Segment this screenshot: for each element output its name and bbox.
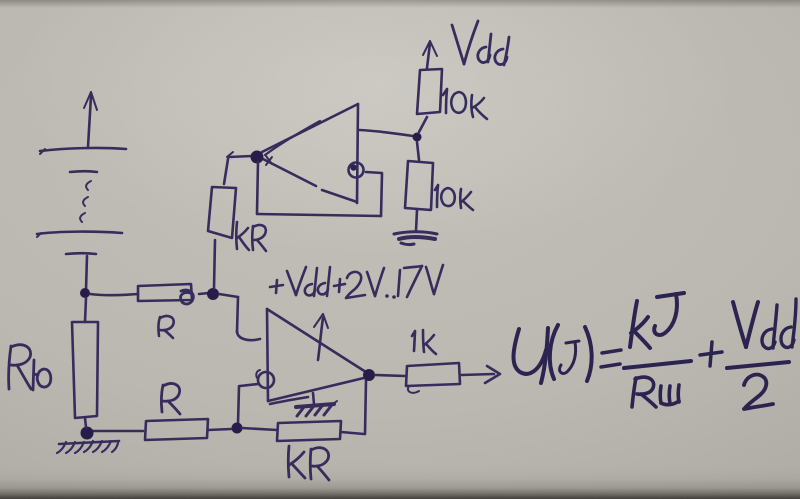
- formula equals sign: [601, 350, 621, 367]
- resistor kR1: [208, 187, 236, 238]
- label R3 value 10k: [435, 185, 473, 210]
- wire U1 to node E: [359, 130, 413, 136]
- wire sensor to node A: [86, 256, 87, 290]
- wire U1 feedback loop: [257, 162, 382, 216]
- wire node C to resistor R4: [208, 429, 231, 430]
- wire node E to resistor R3: [417, 142, 419, 160]
- resistor R3 10k: [405, 161, 433, 210]
- sensor capacitor stack arrow: [84, 92, 97, 147]
- wire resistor R2 to node E: [419, 117, 427, 132]
- sensor plate 1: [40, 148, 126, 154]
- formula plus sign: [700, 342, 722, 366]
- wire resistor R1 to node A2: [199, 293, 209, 294]
- formula numerator Vdd: [733, 299, 796, 349]
- op-amp U2: [267, 309, 369, 401]
- resistor R5 Ryu vertical: [72, 322, 98, 418]
- label kR1 value kR: [236, 222, 266, 251]
- wire output arrow: [461, 366, 500, 383]
- node A: [80, 288, 90, 298]
- node D: [363, 369, 375, 381]
- label kR2 value kR: [288, 446, 329, 480]
- wire node A to resistor R5: [85, 298, 86, 322]
- resistor R2 10k: [417, 69, 442, 114]
- op-amp U1: [261, 104, 358, 203]
- op-amp U2 power arrow: [314, 314, 328, 360]
- wire resistor R4 to node B: [92, 430, 143, 433]
- formula fraction bar 2: [727, 362, 789, 368]
- wire node A2 to op-amp U2 input: [219, 294, 260, 340]
- wire node C to resistor kR2: [242, 428, 277, 430]
- wire node D to resistor R6: [375, 375, 405, 376]
- label R5 value: [9, 345, 51, 390]
- label R6 value 1k: [412, 330, 436, 354]
- resistor R1: [138, 284, 193, 304]
- formula numerator kJ: [630, 293, 684, 348]
- wire resistor R5 to node B: [85, 418, 86, 427]
- node U1 output: [251, 151, 273, 166]
- wire U2 inverting input to node C: [238, 384, 258, 424]
- sensor plate 3: [37, 232, 122, 237]
- ground G3: [57, 441, 119, 453]
- label R4 value R: [161, 384, 180, 414]
- wire node A2 up to resistor kR1: [214, 240, 215, 288]
- node C: [232, 423, 243, 434]
- sensor dots: [80, 181, 91, 222]
- formula denominator 2: [744, 375, 773, 409]
- wire resistor R3 to ground: [416, 210, 417, 231]
- sensor plate 2: [70, 170, 97, 173]
- formula denominator Rsh: [632, 377, 679, 407]
- sensor plate 4: [66, 252, 96, 255]
- resistor R6 1k: [406, 363, 460, 393]
- formula fraction bar 1: [624, 361, 691, 368]
- resistor R4: [145, 419, 208, 440]
- ground G2 inside U2: [270, 393, 337, 416]
- wire resistor kR2 to node D: [341, 380, 366, 434]
- resistor kR2: [277, 421, 341, 441]
- formula U(J): [514, 325, 592, 383]
- wire resistor kR1 to op-amp U1 output: [224, 152, 252, 184]
- label Vdd: [452, 21, 509, 65]
- label R1 value R: [158, 316, 173, 338]
- node E: [413, 133, 422, 142]
- node A2: [207, 288, 219, 300]
- label U2 supply +Vdd+2V..17V: [270, 265, 443, 299]
- wire node A to resistor R1: [90, 294, 138, 295]
- op-amp U1 input node circle: [349, 163, 364, 178]
- Vdd power arrow: [423, 41, 437, 68]
- label R2 value 10k: [443, 89, 487, 119]
- node B: [81, 427, 94, 440]
- ground G1: [394, 232, 437, 245]
- op-amp U2 inverting input circle: [256, 370, 274, 388]
